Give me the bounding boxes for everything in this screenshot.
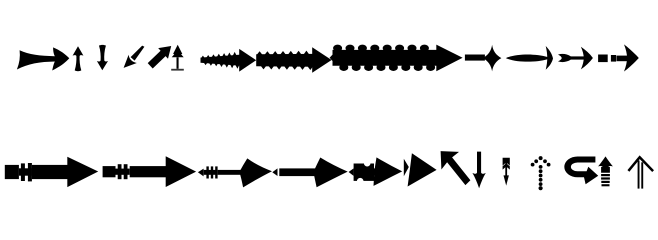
arrow A7: small squiggle arrow right: [201, 49, 257, 72]
arrow B5: bone-notch arrow: [349, 157, 403, 186]
arrow B9: down dart with fletching: [503, 158, 510, 186]
arrow A10: bar arrow with four-point star head: [465, 45, 502, 72]
arrow A12: crescent tail arrow: [558, 47, 593, 70]
arrow A4: thin diagonal arrow to lower-left: [124, 46, 145, 68]
arrow A8: medium squiggle arrow right: [256, 47, 331, 73]
arrow B4: long plain arrow with notched tail: [272, 158, 347, 188]
arrow B1: thick ribbed-tail arrow: [5, 157, 98, 187]
arrow B13: thin open up arrow with double-line shaft: [628, 157, 653, 188]
arrow B6: big detached arrowhead: [404, 153, 437, 186]
arrow A6: up arrow on pedestal bar: [171, 45, 184, 71]
arrow A9: large squiggle arrow right: [330, 45, 463, 72]
arrow B3: thin ribbed-tail arrow with swept head: [198, 158, 272, 187]
arrow B10: dotted up arrow: [531, 156, 551, 190]
arrow A1: flared tail right arrow: [17, 47, 69, 70]
arrow A5: thick diagonal arrow to upper-right: [148, 46, 172, 69]
arrow A3: down arrow: [97, 45, 108, 70]
arrow B11: u-turn hook arrow: [564, 157, 598, 185]
arrow A13: dashed arrow right: [598, 44, 639, 71]
arrow B12: up arrow with striped shaft: [598, 156, 613, 186]
arrow A11: cigar shaft arrow with crescent head: [506, 46, 553, 70]
arrow B7: thick diagonal arrow to upper-left: [441, 151, 471, 185]
arrow B8: down arrow with barbed head: [472, 152, 485, 189]
arrow A2: thin up arrow: [73, 46, 84, 71]
arrow B2: slim ribbed-tail arrow: [103, 156, 197, 187]
